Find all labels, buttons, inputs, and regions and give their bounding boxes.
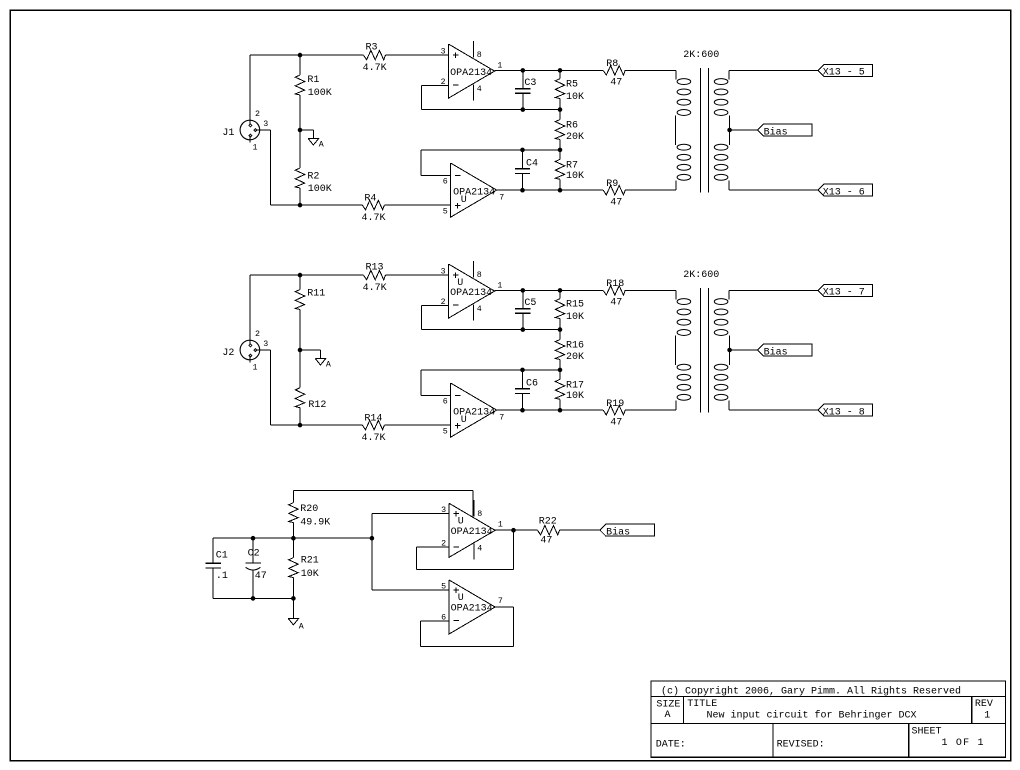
svg-text:47: 47 bbox=[610, 197, 622, 208]
svg-text:5: 5 bbox=[443, 207, 448, 216]
svg-text:DATE:: DATE: bbox=[656, 739, 686, 750]
svg-text:SHEET: SHEET bbox=[912, 727, 942, 738]
svg-text:2K:600: 2K:600 bbox=[683, 50, 719, 61]
svg-text:U: U bbox=[457, 278, 463, 289]
svg-text:1: 1 bbox=[498, 521, 503, 530]
svg-text:U: U bbox=[461, 195, 467, 206]
svg-text:49.9K: 49.9K bbox=[300, 518, 330, 529]
svg-text:R15: R15 bbox=[566, 300, 584, 311]
svg-text:7: 7 bbox=[499, 414, 504, 423]
svg-text:R21: R21 bbox=[301, 556, 319, 567]
svg-text:10K: 10K bbox=[301, 569, 319, 580]
svg-text:R17: R17 bbox=[566, 380, 584, 391]
svg-text:1: 1 bbox=[497, 281, 502, 290]
svg-text:C6: C6 bbox=[526, 378, 538, 389]
svg-text:R4: R4 bbox=[364, 193, 376, 204]
svg-text:R3: R3 bbox=[366, 43, 378, 54]
svg-text:C3: C3 bbox=[524, 78, 536, 89]
svg-text:OPA2134: OPA2134 bbox=[453, 408, 495, 419]
svg-text:R8: R8 bbox=[606, 59, 618, 70]
svg-text:47: 47 bbox=[255, 571, 267, 582]
svg-text:20K: 20K bbox=[566, 132, 584, 143]
svg-text:4.7K: 4.7K bbox=[362, 213, 386, 224]
svg-text:1: 1 bbox=[253, 143, 258, 152]
svg-text:OPA2134: OPA2134 bbox=[450, 68, 492, 79]
svg-text:2: 2 bbox=[255, 110, 260, 119]
svg-text:R16: R16 bbox=[566, 341, 584, 352]
svg-text:C2: C2 bbox=[248, 548, 260, 559]
svg-text:10K: 10K bbox=[566, 92, 584, 103]
svg-text:8: 8 bbox=[477, 51, 482, 60]
svg-text:R1: R1 bbox=[307, 75, 319, 86]
svg-text:C4: C4 bbox=[526, 158, 538, 169]
svg-text:4.7K: 4.7K bbox=[363, 283, 387, 294]
svg-text:Bias: Bias bbox=[764, 346, 788, 358]
svg-text:C1: C1 bbox=[216, 551, 228, 562]
svg-text:U: U bbox=[458, 516, 464, 527]
svg-text:R14: R14 bbox=[364, 413, 382, 424]
svg-text:X13 - 6: X13 - 6 bbox=[823, 187, 865, 198]
svg-text:8: 8 bbox=[477, 271, 482, 280]
svg-text:X13 - 5: X13 - 5 bbox=[823, 68, 865, 79]
svg-text:3: 3 bbox=[263, 340, 268, 349]
svg-text:A: A bbox=[665, 710, 671, 721]
svg-text:20K: 20K bbox=[566, 352, 584, 363]
svg-text:47: 47 bbox=[610, 417, 622, 428]
svg-text:1: 1 bbox=[984, 711, 990, 722]
svg-text:4: 4 bbox=[477, 305, 482, 314]
svg-text:REV: REV bbox=[975, 699, 993, 710]
svg-text:R6: R6 bbox=[566, 121, 578, 132]
svg-text:R11: R11 bbox=[307, 289, 325, 300]
svg-text:100K: 100K bbox=[308, 184, 332, 195]
svg-text:R20: R20 bbox=[300, 504, 318, 515]
svg-text:3: 3 bbox=[263, 120, 268, 129]
svg-text:X13 - 7: X13 - 7 bbox=[823, 288, 865, 299]
svg-text:1: 1 bbox=[497, 61, 502, 70]
svg-text:A: A bbox=[299, 622, 304, 631]
svg-text:R18: R18 bbox=[606, 279, 624, 290]
svg-text:6: 6 bbox=[443, 177, 448, 186]
svg-text:47: 47 bbox=[540, 536, 552, 547]
svg-text:2: 2 bbox=[255, 330, 260, 339]
svg-text:47: 47 bbox=[610, 78, 622, 89]
svg-text:5: 5 bbox=[441, 582, 446, 591]
svg-text:U: U bbox=[458, 593, 464, 604]
svg-text:3: 3 bbox=[441, 47, 446, 56]
svg-text:TITLE: TITLE bbox=[687, 699, 717, 710]
svg-text:6: 6 bbox=[443, 397, 448, 406]
svg-text:R22: R22 bbox=[539, 516, 557, 527]
svg-text:Bias: Bias bbox=[764, 126, 788, 138]
svg-text:R5: R5 bbox=[566, 80, 578, 91]
svg-text:4.7K: 4.7K bbox=[363, 63, 387, 74]
svg-text:1: 1 bbox=[253, 363, 258, 372]
svg-text:1 OF 1: 1 OF 1 bbox=[942, 738, 985, 749]
svg-text:5: 5 bbox=[443, 427, 448, 436]
svg-text:8: 8 bbox=[477, 510, 482, 519]
svg-text:Bias: Bias bbox=[606, 527, 630, 539]
svg-text:X13 - 8: X13 - 8 bbox=[823, 407, 865, 418]
svg-text:R19: R19 bbox=[606, 399, 624, 410]
svg-text:U: U bbox=[461, 415, 467, 426]
svg-text:4: 4 bbox=[477, 85, 482, 94]
svg-text:7: 7 bbox=[499, 194, 504, 203]
svg-text:10K: 10K bbox=[566, 171, 584, 182]
svg-text:4: 4 bbox=[477, 544, 482, 553]
svg-text:A: A bbox=[319, 141, 324, 150]
svg-text:4.7K: 4.7K bbox=[362, 433, 386, 444]
svg-text:47: 47 bbox=[610, 298, 622, 309]
svg-text:2K:600: 2K:600 bbox=[683, 270, 719, 281]
svg-text:10K: 10K bbox=[566, 391, 584, 402]
svg-text:OPA2134: OPA2134 bbox=[453, 188, 495, 199]
svg-text:R12: R12 bbox=[308, 400, 326, 411]
svg-text:A: A bbox=[326, 361, 331, 370]
svg-text:OPA2134: OPA2134 bbox=[451, 604, 493, 615]
svg-text:R13: R13 bbox=[366, 263, 384, 274]
svg-text:R7: R7 bbox=[566, 160, 578, 171]
svg-text:J2: J2 bbox=[222, 348, 234, 359]
svg-text:R2: R2 bbox=[307, 171, 319, 182]
svg-text:OPA2134: OPA2134 bbox=[451, 527, 493, 538]
svg-text:OPA2134: OPA2134 bbox=[450, 288, 492, 299]
svg-text:3: 3 bbox=[441, 267, 446, 276]
svg-text:3: 3 bbox=[441, 506, 446, 515]
svg-text:10K: 10K bbox=[566, 312, 584, 323]
svg-text:C5: C5 bbox=[524, 298, 536, 309]
svg-text:REVISED:: REVISED: bbox=[777, 739, 825, 750]
svg-text:R9: R9 bbox=[606, 179, 618, 190]
svg-text:New input circuit for Behringe: New input circuit for Behringer DCX bbox=[707, 709, 917, 721]
svg-text:J1: J1 bbox=[222, 128, 234, 139]
svg-text:(c) Copyright 2006, Gary Pimm.: (c) Copyright 2006, Gary Pimm. All Right… bbox=[661, 685, 961, 697]
svg-text:.1: .1 bbox=[216, 571, 228, 582]
svg-text:7: 7 bbox=[498, 597, 503, 606]
svg-text:100K: 100K bbox=[308, 88, 332, 99]
